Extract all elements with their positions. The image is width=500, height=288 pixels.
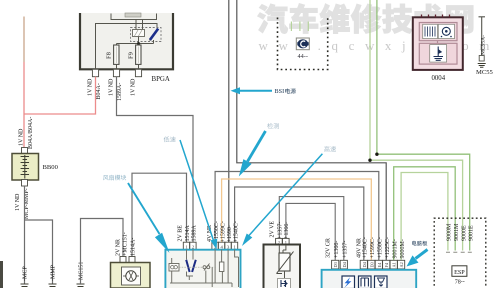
svg-text:2V BE: 2V BE — [178, 225, 184, 242]
svg-text:1V ND: 1V ND — [131, 78, 137, 96]
svg-text:1589A-: 1589A- — [117, 83, 123, 101]
cropped element at left edge — [0, 261, 3, 288]
fan module 4V NR pin 1590 — [225, 242, 231, 249]
wire 9000M (green) — [401, 173, 448, 261]
svg-text:+1540C-: +1540C- — [233, 221, 239, 242]
wire MC55A — [479, 17, 487, 58]
ground wire to MCP / MMP — [25, 186, 53, 284]
wire 1366 (sensor to computer) — [286, 203, 335, 260]
computer board connector 32V GR labels — [326, 238, 349, 258]
svg-text:BPGA: BPGA — [152, 76, 170, 83]
component 44 icon — [296, 38, 309, 50]
annotation BSI power — [231, 87, 296, 95]
computer board pin D4 (1357) — [340, 260, 347, 269]
annotation high speed — [242, 146, 336, 246]
fan control module box — [165, 250, 240, 288]
ESP unit (dashed box) — [434, 218, 486, 288]
svg-text:1589A: 1589A — [191, 225, 197, 242]
computer board pin A2 (9000M) — [398, 260, 405, 269]
svg-text:D3: D3 — [333, 261, 338, 267]
wire 1540C — [235, 187, 364, 260]
svg-text:+1366-: +1366- — [334, 241, 340, 258]
svg-text:D4: D4 — [362, 261, 367, 267]
svg-text:9001M: 9001M — [454, 223, 460, 241]
svg-text:ESP: ESP — [454, 269, 465, 276]
svg-text:B04A/B04A-: B04A/B04A- — [28, 117, 34, 149]
svg-text:9000M: 9000M — [446, 223, 452, 241]
wire labels B04A — [19, 117, 34, 149]
ground MC151 — [77, 262, 85, 288]
ground MC55 — [476, 56, 494, 77]
computer board pin D4b (1540C) — [360, 260, 367, 269]
svg-text:9000E: 9000E — [461, 225, 467, 241]
battery BB00 — [12, 154, 59, 181]
relay contact (blue) — [149, 29, 158, 41]
computer board connector 48V NR labels — [356, 237, 406, 258]
svg-text:F9: F9 — [127, 51, 134, 59]
fan module 4V NR pin 1599C — [218, 242, 224, 249]
fan module connector 4V NR labels — [207, 221, 240, 242]
BSI unit 0004 — [413, 15, 463, 70]
svg-text:E4: E4 — [377, 262, 382, 268]
svg-text:BB00: BB00 — [43, 164, 59, 171]
annotation fan module — [103, 175, 170, 253]
BPGA pin 1 — [92, 69, 98, 76]
svg-text:-MC151: -MC151 — [79, 262, 85, 282]
ESP pin labels — [446, 223, 475, 252]
BPGA pin 2 — [113, 69, 119, 76]
annotation detection — [239, 123, 279, 177]
svg-text:1V ND: 1V ND — [19, 128, 25, 146]
computer board pin A1 (9001M) — [390, 260, 397, 269]
fan motor MOTO box — [111, 263, 151, 288]
svg-text:+1366-: +1366- — [284, 222, 290, 239]
svg-text:+MC55A-: +MC55A- — [480, 35, 486, 58]
svg-text:2V VE: 2V VE — [270, 221, 276, 238]
svg-text:48V NR: 48V NR — [356, 238, 362, 258]
ground MMP — [49, 264, 57, 288]
svg-text:9000M-: 9000M- — [400, 239, 406, 258]
fan module connector 2V BE labels — [178, 225, 198, 242]
svg-text:+1599C-: +1599C- — [221, 221, 227, 242]
computer board icons — [342, 276, 387, 288]
fan motor pin 1 — [120, 257, 126, 264]
wire 1550C — [215, 172, 379, 261]
wire B04A (red) battery feed — [24, 62, 96, 149]
relay K (dashed) in BPGA — [131, 20, 162, 42]
svg-text:D4: D4 — [342, 261, 347, 267]
computer board pin F4 (1225C) — [383, 260, 390, 269]
svg-text:A2: A2 — [399, 262, 404, 267]
wire 1590 (from top) — [228, 0, 230, 243]
svg-text:+1599C-: +1599C- — [370, 237, 376, 258]
BPGA internal top connector bracket — [111, 13, 157, 20]
svg-text:+1357-: +1357- — [343, 241, 349, 258]
computer board pin E4 (1550C) — [375, 260, 382, 269]
wire 9001M (green) — [394, 167, 456, 260]
svg-text:+1550C-: +1550C- — [378, 237, 384, 258]
svg-text:9001E: 9001E — [469, 225, 475, 241]
sensor connector 2V VE labels — [270, 221, 291, 239]
dashed box around relay 44 — [278, 18, 328, 70]
node under relay — [117, 37, 154, 46]
svg-text:-MCP: -MCP — [23, 266, 29, 281]
wire 1589A (F8 to fan module) — [117, 77, 194, 243]
battery BB00 bottom pin — [22, 180, 28, 187]
svg-text:1V ND: 1V ND — [109, 78, 115, 96]
wire B04A upper segment (tan) — [23, 17, 25, 63]
annotation computer board — [407, 241, 428, 267]
ground MCP — [21, 266, 29, 288]
BPGA pin labels — [88, 78, 137, 101]
BPGA pin 3 — [135, 69, 141, 76]
svg-text:+1357-: +1357- — [278, 222, 284, 239]
fan motor connector labels 2V NR — [115, 232, 136, 256]
svg-text:1V ND: 1V ND — [88, 78, 94, 96]
computer board box — [322, 270, 417, 288]
fan module internals — [169, 250, 239, 288]
svg-text:+1590-: +1590- — [227, 225, 233, 242]
svg-text:+1225C-: +1225C- — [385, 237, 391, 258]
svg-text:2V NR: 2V NR — [115, 239, 121, 256]
svg-text:1V ND: 1V ND — [15, 193, 21, 211]
fan motor pin 2 — [129, 257, 135, 264]
wire 1225C BSI supply — [237, 0, 386, 260]
green stubs to component 44 — [291, 22, 308, 32]
svg-text:A1: A1 — [392, 262, 397, 267]
fan module 2V BE pin 1589A — [190, 242, 196, 249]
svg-text:9001M-: 9001M- — [393, 239, 399, 258]
fan module 4V NR pin 1540C — [231, 242, 237, 249]
wire 1357 (sensor to computer) — [279, 197, 344, 261]
temperature sensor box — [264, 245, 301, 288]
svg-text:B04A-: B04A- — [96, 83, 102, 99]
fuse-relay box BPGA — [80, 13, 173, 83]
svg-text:44--: 44-- — [298, 53, 309, 60]
svg-text:F8: F8 — [105, 51, 112, 59]
fan module 4V NR pin 1550C — [212, 242, 218, 249]
svg-text:1514A-: 1514A- — [131, 238, 137, 256]
annotation low speed — [164, 136, 218, 249]
svg-text:1514A: 1514A — [185, 225, 191, 242]
svg-text:+MC151-: +MC151- — [122, 232, 128, 256]
wire 9001E (green, from top) — [375, 0, 470, 251]
svg-text:0004: 0004 — [432, 75, 446, 82]
svg-text:+1540C-: +1540C- — [363, 237, 369, 258]
fuse F8 — [105, 44, 119, 70]
wire MC151 (motor to ground) — [81, 219, 124, 285]
computer board pin D3b (1599C) — [368, 260, 375, 269]
svg-text:32V GR: 32V GR — [326, 238, 332, 258]
wire 1599C (orange) — [222, 179, 372, 260]
fuse F9 — [127, 45, 141, 69]
battery BB00 top pin — [22, 148, 28, 155]
fan module 2V BE pin 1514A — [183, 242, 189, 249]
wire 9000E (green, from top) — [368, 0, 462, 251]
BB00 ground wire labels — [15, 188, 30, 219]
sensor pin 1357 — [276, 238, 283, 244]
svg-text:MC55: MC55 — [476, 69, 494, 76]
svg-text:F4: F4 — [384, 262, 389, 267]
computer board pin D3 (1366) — [332, 260, 339, 269]
BPGA internal supply wire — [96, 24, 158, 70]
svg-text:BSI: BSI — [275, 88, 285, 95]
svg-text:-MMP: -MMP — [51, 264, 57, 281]
wire 1514A (motor to fan module) — [132, 173, 187, 258]
sensor pin 1366 — [283, 238, 290, 244]
svg-text:D3: D3 — [369, 261, 374, 267]
svg-text:78--: 78-- — [455, 280, 465, 286]
